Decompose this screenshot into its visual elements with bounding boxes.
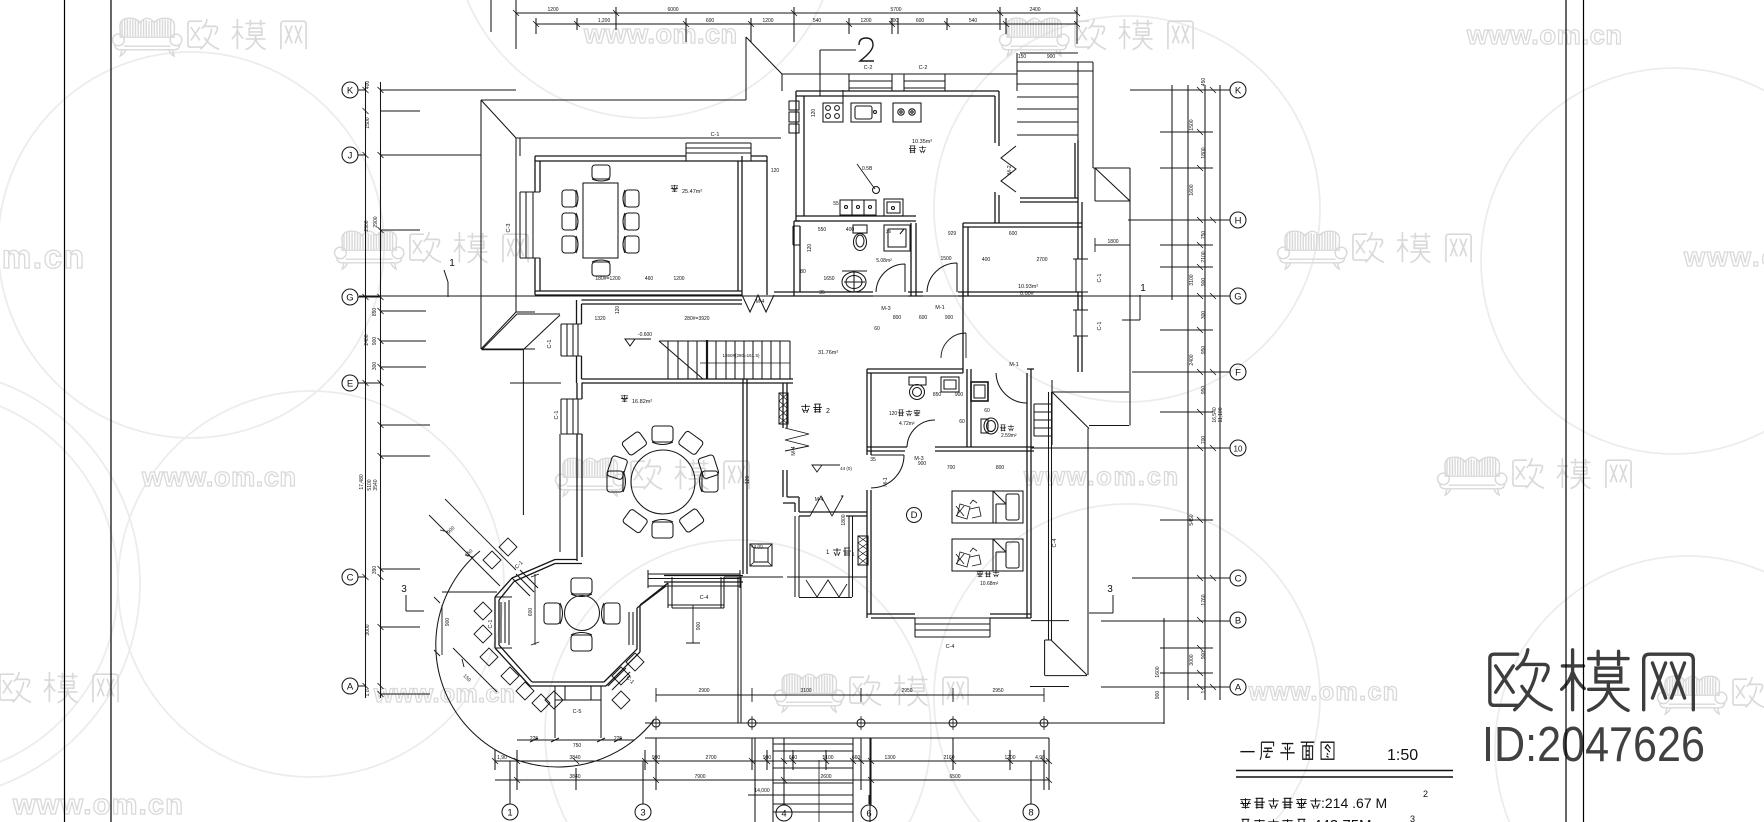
svg-text:2160: 2160	[943, 755, 954, 761]
svg-text:2400: 2400	[1029, 7, 1040, 13]
svg-text:600: 600	[919, 315, 928, 321]
svg-text:1300: 1300	[884, 755, 895, 761]
svg-text:6: 6	[866, 809, 871, 820]
svg-text:C-2: C-2	[864, 65, 873, 71]
section marker 1	[444, 270, 1140, 320]
svg-text:800: 800	[996, 465, 1005, 471]
svg-text:M-4: M-4	[756, 299, 765, 305]
svg-text:1500: 1500	[365, 117, 371, 128]
svg-text:2700: 2700	[705, 755, 716, 761]
svg-text:2100: 2100	[1201, 251, 1207, 262]
svg-text:M-1: M-1	[883, 477, 889, 486]
svg-text:4.72m²: 4.72m²	[899, 421, 915, 427]
svg-text:M-4: M-4	[815, 497, 824, 503]
roof outline NW	[481, 37, 782, 349]
svg-text:1200: 1200	[547, 7, 558, 13]
svg-text:60: 60	[874, 326, 880, 332]
svg-text:950: 950	[1201, 346, 1207, 355]
M-2 door kitchen right zigzag	[1001, 146, 1016, 192]
svg-text:www.o: www.o	[1683, 242, 1764, 272]
svg-text:1500: 1500	[940, 256, 951, 262]
svg-text:H: H	[1235, 216, 1242, 227]
svg-text:120: 120	[745, 476, 751, 485]
kitchen walls	[796, 91, 999, 223]
svg-text:M-1: M-1	[1009, 362, 1018, 368]
svg-text:1200: 1200	[673, 276, 684, 282]
svg-text:C-5: C-5	[573, 709, 582, 715]
window C-4 bedroom bottom	[915, 618, 990, 637]
svg-text:A: A	[347, 682, 354, 693]
door arcs upper baths	[871, 373, 1027, 488]
grid bubbles left	[342, 82, 358, 694]
svg-text:3840: 3840	[569, 755, 580, 761]
svg-text:D: D	[911, 510, 918, 521]
svg-text:550: 550	[818, 227, 827, 233]
svg-text:3840: 3840	[569, 774, 580, 780]
right rooms walls	[963, 140, 1082, 372]
svg-text:900: 900	[1155, 691, 1161, 700]
svg-text:2400: 2400	[1189, 354, 1195, 365]
svg-text:4,90: 4,90	[1035, 755, 1045, 761]
kitchen counters top	[789, 101, 921, 133]
svg-text:800: 800	[893, 315, 902, 321]
entrance stairs bottom	[755, 738, 870, 822]
svg-text:1,90: 1,90	[497, 755, 507, 761]
svg-text:1800: 1800	[1107, 239, 1118, 245]
svg-text:F: F	[1235, 368, 1241, 379]
area line	[1240, 798, 1320, 808]
svg-text:35: 35	[870, 457, 876, 463]
svg-text:M-3: M-3	[914, 456, 923, 462]
svg-text:750: 750	[1201, 231, 1207, 240]
svg-text:900: 900	[1047, 54, 1056, 60]
svg-text:900: 900	[763, 755, 772, 761]
svg-text:17,480: 17,480	[359, 474, 365, 490]
svg-text:900: 900	[955, 392, 964, 398]
svg-text:25: 25	[886, 229, 892, 234]
svg-text:K: K	[347, 86, 354, 97]
svg-text:6500: 6500	[949, 774, 960, 780]
roof south band + terrace west edge	[482, 314, 560, 552]
svg-text:3: 3	[1410, 814, 1415, 822]
svg-text::214 .67 M: :214 .67 M	[1321, 795, 1387, 811]
svg-text:1200: 1200	[860, 18, 871, 24]
svg-text:540: 540	[813, 18, 822, 24]
level marker -0.600	[625, 339, 651, 346]
svg-text:31.76m²: 31.76m²	[818, 350, 838, 356]
svg-text:16.82m²: 16.82m²	[632, 399, 652, 405]
svg-text:C: C	[347, 573, 354, 584]
terrace	[645, 392, 1164, 738]
bay radial dims	[429, 499, 539, 692]
bath fixtures mid	[793, 225, 910, 292]
svg-text:700: 700	[947, 465, 956, 471]
bay arc	[436, 551, 654, 767]
svg-text:5450: 5450	[1189, 514, 1195, 525]
small square table hall	[750, 544, 772, 566]
svg-text:900: 900	[445, 618, 451, 627]
svg-text:14,000: 14,000	[754, 788, 770, 794]
svg-text:10: 10	[1234, 445, 1243, 454]
svg-text:M-2: M-2	[1007, 165, 1013, 174]
svg-text:600: 600	[706, 18, 715, 24]
svg-text:3000: 3000	[365, 624, 371, 635]
svg-text:1600: 1600	[1155, 666, 1161, 677]
terrace dims	[656, 605, 1044, 702]
bubble D in room	[907, 508, 922, 523]
svg-text:C-1: C-1	[1097, 274, 1103, 283]
svg-text:1760: 1760	[1201, 594, 1207, 605]
svg-text:3: 3	[1107, 584, 1113, 595]
svg-text:8: 8	[1028, 808, 1033, 819]
grid bubbles bottom	[502, 804, 1039, 821]
interior stairs	[659, 340, 790, 379]
svg-text:1: 1	[449, 258, 455, 269]
svg-text:C-1: C-1	[547, 340, 553, 349]
svg-text:K: K	[1235, 86, 1242, 97]
corridor door nook	[806, 580, 847, 597]
svg-text:120: 120	[615, 306, 621, 315]
svg-text:540: 540	[969, 18, 978, 24]
svg-text:C-4: C-4	[1052, 539, 1058, 548]
svg-text:C-4: C-4	[700, 595, 709, 601]
svg-text:1260#(280=161.5): 1260#(280=161.5)	[723, 353, 760, 358]
svg-text:450: 450	[1201, 78, 1207, 87]
svg-text:1800: 1800	[1201, 147, 1207, 158]
svg-text:C-1: C-1	[1097, 322, 1103, 331]
svg-text:E: E	[347, 379, 353, 390]
small stairs right of bath	[1034, 380, 1052, 445]
svg-text:11,100: 11,100	[1218, 407, 1224, 422]
svg-text:om.cn: om.cn	[0, 238, 86, 275]
living room walls	[555, 379, 867, 582]
svg-text:3100: 3100	[800, 688, 811, 694]
bay floor diamonds	[474, 538, 644, 712]
svg-text:55: 55	[833, 201, 839, 207]
window C-1 living left	[561, 399, 582, 434]
svg-text:2600: 2600	[820, 774, 831, 780]
left dim numbers rotated	[359, 81, 379, 697]
svg-text::443.75M: :443.75M	[1309, 817, 1372, 822]
svg-text:C-2: C-2	[919, 65, 928, 71]
svg-text:660: 660	[789, 755, 798, 761]
svg-text:1600: 1600	[1189, 184, 1195, 195]
svg-text:G: G	[1234, 292, 1241, 303]
svg-text:900: 900	[696, 622, 702, 631]
window C-3 dining left	[520, 192, 540, 258]
kitchen window C-2 x2	[849, 74, 945, 91]
svg-text:120: 120	[811, 109, 817, 118]
svg-text:850: 850	[372, 308, 378, 317]
bay windows C-1/C-5 marks	[495, 570, 634, 742]
svg-text:www.om.cn: www.om.cn	[12, 789, 185, 821]
svg-text:4: 4	[781, 809, 786, 820]
window C-4 living bottom	[648, 570, 740, 588]
svg-text:750: 750	[573, 743, 582, 749]
svg-text:10.93m²: 10.93m²	[1018, 284, 1038, 290]
bay small table + chairs	[544, 578, 620, 651]
svg-text:225: 225	[530, 736, 539, 742]
svg-text:1:50: 1:50	[1387, 747, 1418, 764]
svg-text:44 (0): 44 (0)	[840, 466, 852, 471]
svg-text:1,0: 1,0	[1201, 686, 1207, 693]
svg-text:M-1: M-1	[935, 305, 944, 311]
beds	[952, 491, 1023, 571]
svg-text:950: 950	[1201, 386, 1207, 395]
svg-text:3540: 3540	[373, 479, 379, 490]
svg-text:2700: 2700	[1036, 257, 1047, 263]
svg-text:www.om.cn: www.om.cn	[1466, 20, 1624, 50]
svg-text:80: 80	[800, 269, 806, 275]
svg-text:390: 390	[372, 566, 378, 575]
door/window labels	[488, 65, 1103, 715]
svg-text:3: 3	[401, 584, 407, 595]
svg-text:1200: 1200	[762, 18, 773, 24]
stair hall walls	[577, 300, 794, 383]
svg-text:C-1: C-1	[711, 132, 720, 138]
left dim lines / grid	[358, 82, 561, 698]
svg-text:120: 120	[807, 244, 813, 253]
svg-text:600: 600	[528, 608, 534, 617]
svg-text:C-3: C-3	[506, 224, 512, 233]
svg-text:3000: 3000	[1189, 654, 1195, 665]
svg-text:3100: 3100	[1189, 274, 1195, 285]
window C-1 dining top	[686, 143, 751, 161]
svg-text:2400: 2400	[364, 334, 370, 345]
svg-text:900: 900	[1201, 278, 1207, 287]
svg-text:25.47m²: 25.47m²	[682, 189, 702, 195]
ID LAYER	[1236, 650, 1705, 822]
svg-text:0.00#: 0.00#	[1020, 291, 1035, 297]
right dim lines / grid	[359, 85, 1230, 724]
svg-text:5100: 5100	[822, 755, 833, 761]
M-4 door dining-hall	[742, 295, 774, 312]
svg-text:-0.600: -0.600	[638, 332, 652, 338]
svg-text:C-1: C-1	[488, 620, 494, 629]
bottom dim numbers	[497, 688, 1045, 794]
svg-text:2900: 2900	[364, 220, 370, 231]
svg-text:35: 35	[819, 290, 825, 296]
svg-text:5.08m²: 5.08m²	[876, 258, 892, 264]
room labels with cjk squiggles	[621, 139, 1038, 587]
svg-text:2900: 2900	[698, 688, 709, 694]
svg-text:600: 600	[916, 18, 925, 24]
dining table rect	[562, 165, 639, 276]
svg-text:M-4: M-4	[791, 446, 797, 455]
svg-text:120: 120	[889, 411, 898, 417]
svg-text:J: J	[348, 151, 353, 162]
svg-text:10.35m²: 10.35m²	[912, 139, 932, 145]
top dim numbers	[547, 7, 1055, 60]
svg-text:300: 300	[890, 18, 899, 24]
svg-text:225: 225	[614, 736, 623, 742]
svg-text:6000: 6000	[667, 7, 678, 13]
svg-text:300: 300	[372, 362, 378, 371]
section marker 2 top	[820, 50, 856, 104]
svg-text:900: 900	[372, 337, 378, 346]
svg-text:C-1: C-1	[554, 411, 560, 420]
svg-text:150: 150	[1018, 54, 1027, 60]
svg-text:2: 2	[826, 408, 830, 415]
svg-text:G: G	[346, 293, 353, 304]
svg-text:60: 60	[959, 419, 965, 425]
svg-text:660: 660	[852, 755, 861, 761]
svg-text:3: 3	[640, 808, 645, 819]
big gray logo text	[1490, 650, 1693, 711]
svg-text:280#=3920: 280#=3920	[684, 316, 709, 322]
north porch line	[782, 74, 1017, 91]
svg-text:2900: 2900	[373, 216, 379, 227]
doors from hall to baths	[876, 263, 957, 292]
section marker 3 right	[1089, 595, 1113, 613]
svg-text:10.68m²: 10.68m²	[980, 581, 999, 587]
upper bath fixtures	[909, 377, 998, 434]
svg-text:2: 2	[1423, 789, 1428, 799]
svg-text:850: 850	[933, 392, 942, 398]
svg-text:600: 600	[1009, 231, 1018, 237]
svg-text:900: 900	[652, 755, 661, 761]
svg-text:B: B	[1235, 616, 1241, 627]
svg-text:7900: 7900	[694, 774, 705, 780]
svg-text:2950: 2950	[901, 688, 912, 694]
interior dims	[445, 109, 1119, 749]
svg-text:1200: 1200	[1004, 755, 1015, 761]
svg-text:400: 400	[365, 81, 371, 90]
svg-text:1: 1	[507, 808, 512, 819]
svg-text:0.5B: 0.5B	[862, 166, 873, 172]
svg-text:460: 460	[645, 276, 654, 282]
svg-text:1,200: 1,200	[598, 18, 611, 24]
svg-text:44 (0): 44 (0)	[751, 544, 763, 549]
svg-text:1: 1	[852, 552, 855, 558]
svg-text:60: 60	[984, 408, 990, 414]
grid letters	[346, 86, 1243, 820]
svg-text:180#=1200: 180#=1200	[595, 276, 620, 282]
exterior stairs top right	[1017, 53, 1093, 168]
pointer 0.5	[857, 164, 875, 189]
kitchen sink bottom	[840, 199, 903, 216]
door M-1 hall right	[941, 333, 966, 358]
PLAN LAYER	[342, 0, 1246, 822]
right dim numbers rotated	[1155, 78, 1224, 700]
dim 1800	[1095, 238, 1130, 252]
svg-text:300: 300	[1201, 311, 1207, 320]
bottom dim lines	[492, 738, 1052, 805]
top dimension lines	[491, 0, 1080, 49]
bay octagon walls	[495, 560, 668, 687]
right roof piece	[1093, 168, 1130, 426]
bedroom walls	[867, 369, 1031, 618]
svg-text:1: 1	[1140, 283, 1146, 294]
grid bubbles right	[1230, 82, 1246, 695]
svg-text:400: 400	[982, 257, 991, 263]
svg-text:1,0: 1,0	[365, 689, 371, 696]
svg-text:1800: 1800	[841, 514, 847, 525]
title block	[1240, 742, 1334, 760]
svg-text:5700: 5700	[890, 7, 901, 13]
svg-text:C-4: C-4	[946, 644, 955, 650]
svg-text:900: 900	[1201, 651, 1207, 660]
svg-text:2950: 2950	[992, 688, 1003, 694]
electric box living wall	[779, 393, 788, 424]
section marker 3 left	[406, 595, 424, 611]
svg-text:2.59m²: 2.59m²	[1001, 433, 1017, 439]
section numbers	[401, 258, 1146, 595]
svg-text:A: A	[1235, 683, 1242, 694]
svg-text:1320: 1320	[594, 316, 605, 322]
mid bathroom walls	[774, 221, 1082, 296]
svg-text:1650: 1650	[823, 276, 834, 282]
svg-text:700: 700	[1201, 436, 1207, 445]
svg-text:ID:2047626: ID:2047626	[1482, 718, 1705, 772]
svg-text:www.om.cn: www.om.cn	[1023, 463, 1180, 491]
svg-text:www.om.cn: www.om.cn	[1248, 678, 1400, 706]
svg-text:M-3: M-3	[881, 306, 890, 312]
svg-text:1500: 1500	[1189, 119, 1195, 130]
upper bath block walls	[867, 296, 1034, 451]
round dining table	[606, 426, 719, 538]
windows C-1 right wall	[1073, 259, 1088, 336]
electric box hall	[858, 536, 868, 565]
svg-text:900: 900	[945, 315, 954, 321]
window C-1 hall left	[561, 324, 582, 356]
svg-text:www.om.cn: www.om.cn	[141, 462, 298, 492]
dining room walls	[535, 156, 767, 295]
bottom clipped row	[1240, 819, 1306, 822]
svg-text:929: 929	[948, 231, 957, 237]
level marker hall	[812, 465, 840, 472]
svg-text:120: 120	[771, 168, 780, 174]
svg-text:400: 400	[846, 227, 855, 233]
M-4 double door living right	[785, 428, 809, 451]
svg-text:C: C	[1235, 574, 1242, 585]
